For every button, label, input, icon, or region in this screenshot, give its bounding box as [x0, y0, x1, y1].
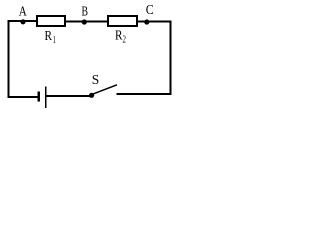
svg-text:B: B: [82, 5, 89, 20]
svg-text:2: 2: [123, 35, 127, 46]
svg-text:A: A: [19, 5, 28, 20]
svg-text:R: R: [45, 29, 53, 44]
svg-text:1: 1: [53, 35, 56, 46]
svg-text:C: C: [146, 3, 154, 18]
svg-text:S: S: [92, 73, 100, 88]
